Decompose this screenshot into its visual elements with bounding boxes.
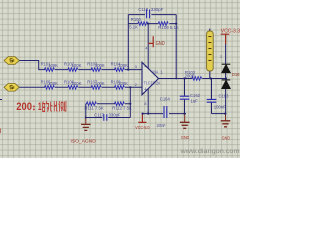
svg-text:1: 1 xyxy=(38,101,42,113)
svg-text:330pF: 330pF xyxy=(109,112,121,117)
svg-text:100nF: 100nF xyxy=(156,123,165,128)
svg-text:GND: GND xyxy=(181,135,190,141)
svg-text:330pF: 330pF xyxy=(151,7,164,12)
svg-text:3: 3 xyxy=(135,64,138,69)
svg-text:TLC2272A: TLC2272A xyxy=(144,81,161,86)
svg-text:-: - xyxy=(144,64,146,70)
svg-text:100K: 100K xyxy=(95,81,105,86)
svg-text:GND: GND xyxy=(222,136,231,142)
svg-text:100K: 100K xyxy=(72,81,82,86)
svg-text:C117: C117 xyxy=(94,112,104,117)
svg-text:GND: GND xyxy=(156,41,166,47)
svg-text:100K: 100K xyxy=(72,63,82,68)
svg-text:5.1K: 5.1K xyxy=(129,25,138,30)
svg-text:1: 1 xyxy=(160,70,163,75)
svg-text:2: 2 xyxy=(220,55,222,59)
svg-text:R109 5.1K: R109 5.1K xyxy=(158,25,179,30)
svg-text:200: 200 xyxy=(16,101,32,113)
svg-text:100K: 100K xyxy=(118,63,128,68)
svg-text:100nF: 100nF xyxy=(214,104,226,109)
svg-text:R111 7.5K: R111 7.5K xyxy=(85,106,104,111)
svg-text:R100: R100 xyxy=(131,17,142,22)
svg-text:+: + xyxy=(144,87,147,93)
svg-text:100K: 100K xyxy=(95,63,105,68)
svg-text:D16: D16 xyxy=(232,72,240,77)
svg-text:2: 2 xyxy=(135,82,138,87)
svg-text:www.diangon.com: www.diangon.com xyxy=(179,148,240,155)
svg-text:C164: C164 xyxy=(160,96,171,101)
svg-text:ISO_AGND: ISO_AGND xyxy=(71,139,97,145)
svg-text:100K: 100K xyxy=(118,81,128,86)
svg-text:C163: C163 xyxy=(219,94,230,99)
svg-text:C162: C162 xyxy=(190,93,201,98)
svg-text:R112 7.5K: R112 7.5K xyxy=(112,106,132,111)
svg-text:8: 8 xyxy=(144,101,147,106)
svg-text:1uF: 1uF xyxy=(191,99,199,104)
svg-text:VCC-5.0: VCC-5.0 xyxy=(135,125,150,130)
svg-text:VCC-3.3: VCC-3.3 xyxy=(221,29,240,35)
svg-text:C118: C118 xyxy=(138,7,148,12)
svg-text:100K: 100K xyxy=(48,63,58,68)
svg-text:200R: 200R xyxy=(185,74,195,79)
svg-text:U9A: U9A xyxy=(152,70,158,75)
svg-text:100K: 100K xyxy=(48,81,58,86)
